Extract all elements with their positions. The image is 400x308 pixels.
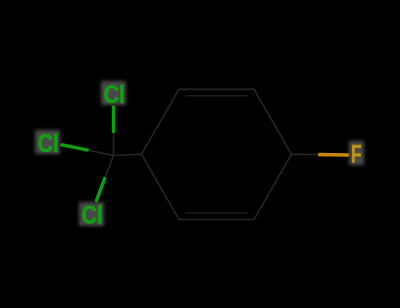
svg-text:Cl: Cl — [104, 81, 125, 109]
svg-text:F: F — [351, 141, 362, 169]
wire: Cl half of bond to bottom Cl — [97, 179, 105, 201]
wire: inner double bond line top — [186, 95, 247, 97]
chlorine half bonds (green) — [62, 107, 114, 201]
wire: bond ring L to CCl3 carbon — [114, 154, 142, 155]
wire: carbon half of bond C-F — [292, 153, 320, 155]
wire: ring edge R-BR — [254, 154, 292, 219]
wire: F half of bond C-F — [320, 153, 348, 157]
wire: ring edge L-TL — [142, 89, 180, 154]
wire: ring edge BR-BL (bottom) — [179, 219, 254, 221]
svg-text:Cl: Cl — [82, 202, 103, 230]
wire: Cl half of bond to left Cl — [62, 145, 87, 150]
jpeg-artifact halos behind labels — [35, 81, 364, 226]
wire: ring edge TR-R — [254, 89, 292, 154]
wire: carbon half of bond C-Cl left — [87, 150, 113, 156]
wire: ring edge TL-TR (top) — [179, 88, 254, 90]
benzene ring (gray carbon skeleton) — [87, 89, 320, 219]
wire: carbon half of bond C-Cl top — [113, 132, 115, 156]
wire: Cl half of bond to top Cl — [112, 107, 115, 132]
svg-text:Cl: Cl — [38, 130, 59, 158]
wire: carbon half of bond C-Cl bottom — [105, 156, 114, 179]
fluorine half bond (goldenrod) — [320, 153, 348, 157]
wire: inner double bond line bottom — [186, 212, 247, 214]
wire: ring edge BL-L — [142, 154, 180, 219]
